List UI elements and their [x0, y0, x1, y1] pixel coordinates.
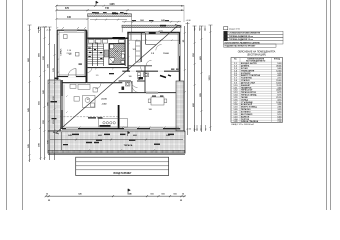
svg-text:-0.02: -0.02: [102, 104, 108, 106]
hall lower wall: [87, 82, 123, 84]
terrace outer edge line: [48, 153, 185, 155]
left wall living area: [61, 80, 63, 129]
windows in bottom wall: [66, 128, 163, 129]
svg-text:1.25: 1.25: [234, 121, 238, 123]
living furniture: [70, 84, 97, 107]
windows in top wall right: [145, 32, 160, 33]
kitchen label specks: [88, 117, 103, 118]
bottom dimension line: [45, 195, 186, 197]
left dimension chain lines: [30, 25, 55, 162]
wall between garage and stair hall: [86, 30, 88, 83]
bottom wall: [62, 128, 180, 130]
duct hatch patch: [104, 50, 108, 57]
top dimension line 1: [55, 5, 184, 7]
right wall: [179, 33, 181, 81]
stair treads: [86, 44, 104, 64]
dining table right: [148, 97, 167, 105]
closet in garage: [64, 35, 68, 39]
right dimension chain lines: [185, 22, 211, 135]
up arrow mark left: [38, 27, 40, 34]
sheet frame line right inner: [326, 0, 328, 210]
hall door arc: [87, 68, 92, 73]
main block top wall right part: [127, 32, 180, 34]
right balcony grid strip: [176, 81, 184, 131]
svg-text:ГАРАЖ: ГАРАЖ: [60, 49, 63, 56]
left balcony grid strip: [48, 80, 61, 131]
door gap corridor: [130, 70, 136, 72]
main block top wall left part: [86, 37, 129, 39]
svg-text:+3.30: +3.30: [186, 20, 192, 22]
top dimension line 2: [55, 9, 184, 11]
extension line left: [55, 5, 57, 28]
garage drain square: [75, 52, 79, 56]
terrace front dense band: [48, 150, 185, 153]
svg-text:±0.00: ±0.00: [101, 99, 107, 101]
bottom terrace grid: [48, 131, 185, 153]
kitchen dark bar: [100, 125, 111, 127]
bedroom1 wardrobe: [136, 41, 141, 62]
wc fixtures: [122, 87, 125, 90]
window in living left wall: [61, 96, 63, 110]
toilet white: [121, 52, 124, 55]
kitchen wall dark vertical: [118, 105, 120, 129]
ticks above garage wall: [56, 27, 86, 29]
svg-text:7.35: 7.35: [278, 121, 282, 123]
stair rails: [91, 43, 93, 66]
interior tick rows: [66, 43, 130, 113]
hall wall above stairs: [87, 38, 112, 40]
svg-text:ОБЯСНЕНИЕ НА ПОМЕЩЕНИЯТА: ОБЯСНЕНИЕ НА ПОМЕЩЕНИЯТА: [238, 50, 276, 53]
concrete lintel dark: [149, 32, 156, 34]
bedroom1 divider wall: [140, 33, 142, 62]
garage marks: [79, 64, 82, 65]
svg-text:СТОМАНОБЕТОНОВИ ЕЛЕМЕНТИ: СТОМАНОБЕТОНОВИ ЕЛЕМЕНТИ: [229, 32, 261, 35]
hall marks: [109, 73, 114, 74]
garage door arc: [68, 76, 76, 78]
north arrow top: [96, 1, 98, 6]
lintel dark dashes: [160, 76, 166, 78]
svg-text:340: 340: [67, 16, 72, 19]
wall dim ticks clutter: [58, 29, 181, 128]
top right kitchen marks: [152, 69, 179, 97]
stair text specks: [88, 48, 102, 60]
window dim ticks above top wall: [90, 19, 127, 21]
left dim labels (rotated): [27, 52, 55, 147]
flag symbol terrace: [128, 132, 130, 137]
svg-text:ТЕРАСА: ТЕРАСА: [124, 144, 133, 147]
svg-text:1010: 1010: [209, 75, 211, 81]
entry door arc living: [95, 83, 101, 89]
section line diagonal: [53, 25, 181, 135]
garage inner faces: [83, 31, 85, 76]
svg-text:ПОДОВИ НАСТИЛКИ ПО ПРОЕКТ: ПОДОВИ НАСТИЛКИ ПО ПРОЕКТ: [225, 44, 257, 47]
corridor wall: [122, 70, 179, 72]
svg-text:1135: 1135: [109, 3, 115, 6]
sheet frame line right outer: [330, 0, 332, 210]
inner wall faces: [63, 32, 179, 127]
bathroom door arcs: [141, 67, 148, 74]
terrace dim line: [50, 132, 183, 150]
dim line above bar2: [122, 21, 181, 23]
notes block small square: [224, 27, 228, 30]
left dim ticks: [28, 24, 213, 162]
balcony railing bar top 2: [122, 25, 181, 28]
garage room outline top-left: [55, 30, 87, 83]
kitchen circles: [99, 119, 128, 128]
bathroom fixtures: [137, 73, 148, 80]
svg-text:670: 670: [65, 7, 70, 10]
notes rows: [224, 31, 283, 44]
svg-text:ВХОД ПАРКИНГ: ВХОД ПАРКИНГ: [114, 172, 133, 175]
room number labels: [68, 43, 169, 112]
sink white box: [110, 44, 114, 49]
svg-text:ТУХЛЕНА ЗИДАРИЯ 12 см: ТУХЛЕНА ЗИДАРИЯ 12 см: [229, 38, 254, 41]
svg-text:ПЛОЩ: ПЛОЩ: [274, 59, 280, 61]
door arc bedroom1: [146, 60, 152, 66]
stair side walls: [85, 40, 87, 68]
wall right of shaft area: [127, 33, 129, 72]
terrace annotation specks: [63, 134, 174, 146]
svg-text:+0.00: +0.00: [186, 129, 192, 131]
shower corner white: [109, 58, 115, 64]
closet door arc: [156, 45, 162, 51]
exterior stairs block bottom: [76, 157, 169, 175]
small partition walls top right: [130, 34, 132, 41]
beam dashed line across living: [60, 116, 118, 118]
flag symbol bottom: [128, 189, 130, 195]
wall below stairs: [87, 67, 129, 69]
svg-text:ТУХЛЕНА ЗИДАРИЯ 25 см: ТУХЛЕНА ЗИДАРИЯ 25 см: [229, 35, 254, 38]
closet row top: [89, 40, 108, 44]
balcony side edges: [88, 16, 181, 38]
legend table: [231, 58, 283, 123]
svg-text:745: 745: [105, 7, 110, 10]
sanitary block walls: [119, 80, 145, 82]
svg-text:ОБЩО ЗП = 148.00 м2: ОБЩО ЗП = 148.00 м2: [231, 124, 255, 126]
svg-text:ЗИМНА ГРАДИНА: ЗИМНА ГРАДИНА: [241, 120, 259, 123]
window dim specks above right top wall: [95, 12, 169, 21]
interior wall below bedroom1: [128, 65, 152, 67]
dark lintel top of bath: [113, 37, 126, 39]
dim line 3 left: [55, 18, 88, 20]
bathroom tiled floor: [109, 44, 125, 65]
bath right wall: [124, 39, 126, 66]
svg-text:мащаб 1:50: мащаб 1:50: [229, 28, 241, 30]
sheet frame line left inner: [22, 0, 24, 210]
sheet frame line left outer: [6, 0, 8, 210]
right bottom arrows: [194, 125, 207, 131]
window in garage top wall: [64, 29, 77, 31]
svg-text:+5.45: +5.45: [46, 30, 52, 32]
svg-text:(ЕКСПЛИКАЦИЯ): (ЕКСПЛИКАЦИЯ): [247, 53, 266, 56]
balcony railing bar top 1: [88, 13, 132, 17]
svg-text:15.60: 15.60: [163, 53, 169, 55]
legend rows: [231, 62, 283, 120]
arrows down top right: [194, 26, 206, 32]
interior dim line y40: [129, 39, 179, 41]
window in right wall: [179, 44, 180, 56]
